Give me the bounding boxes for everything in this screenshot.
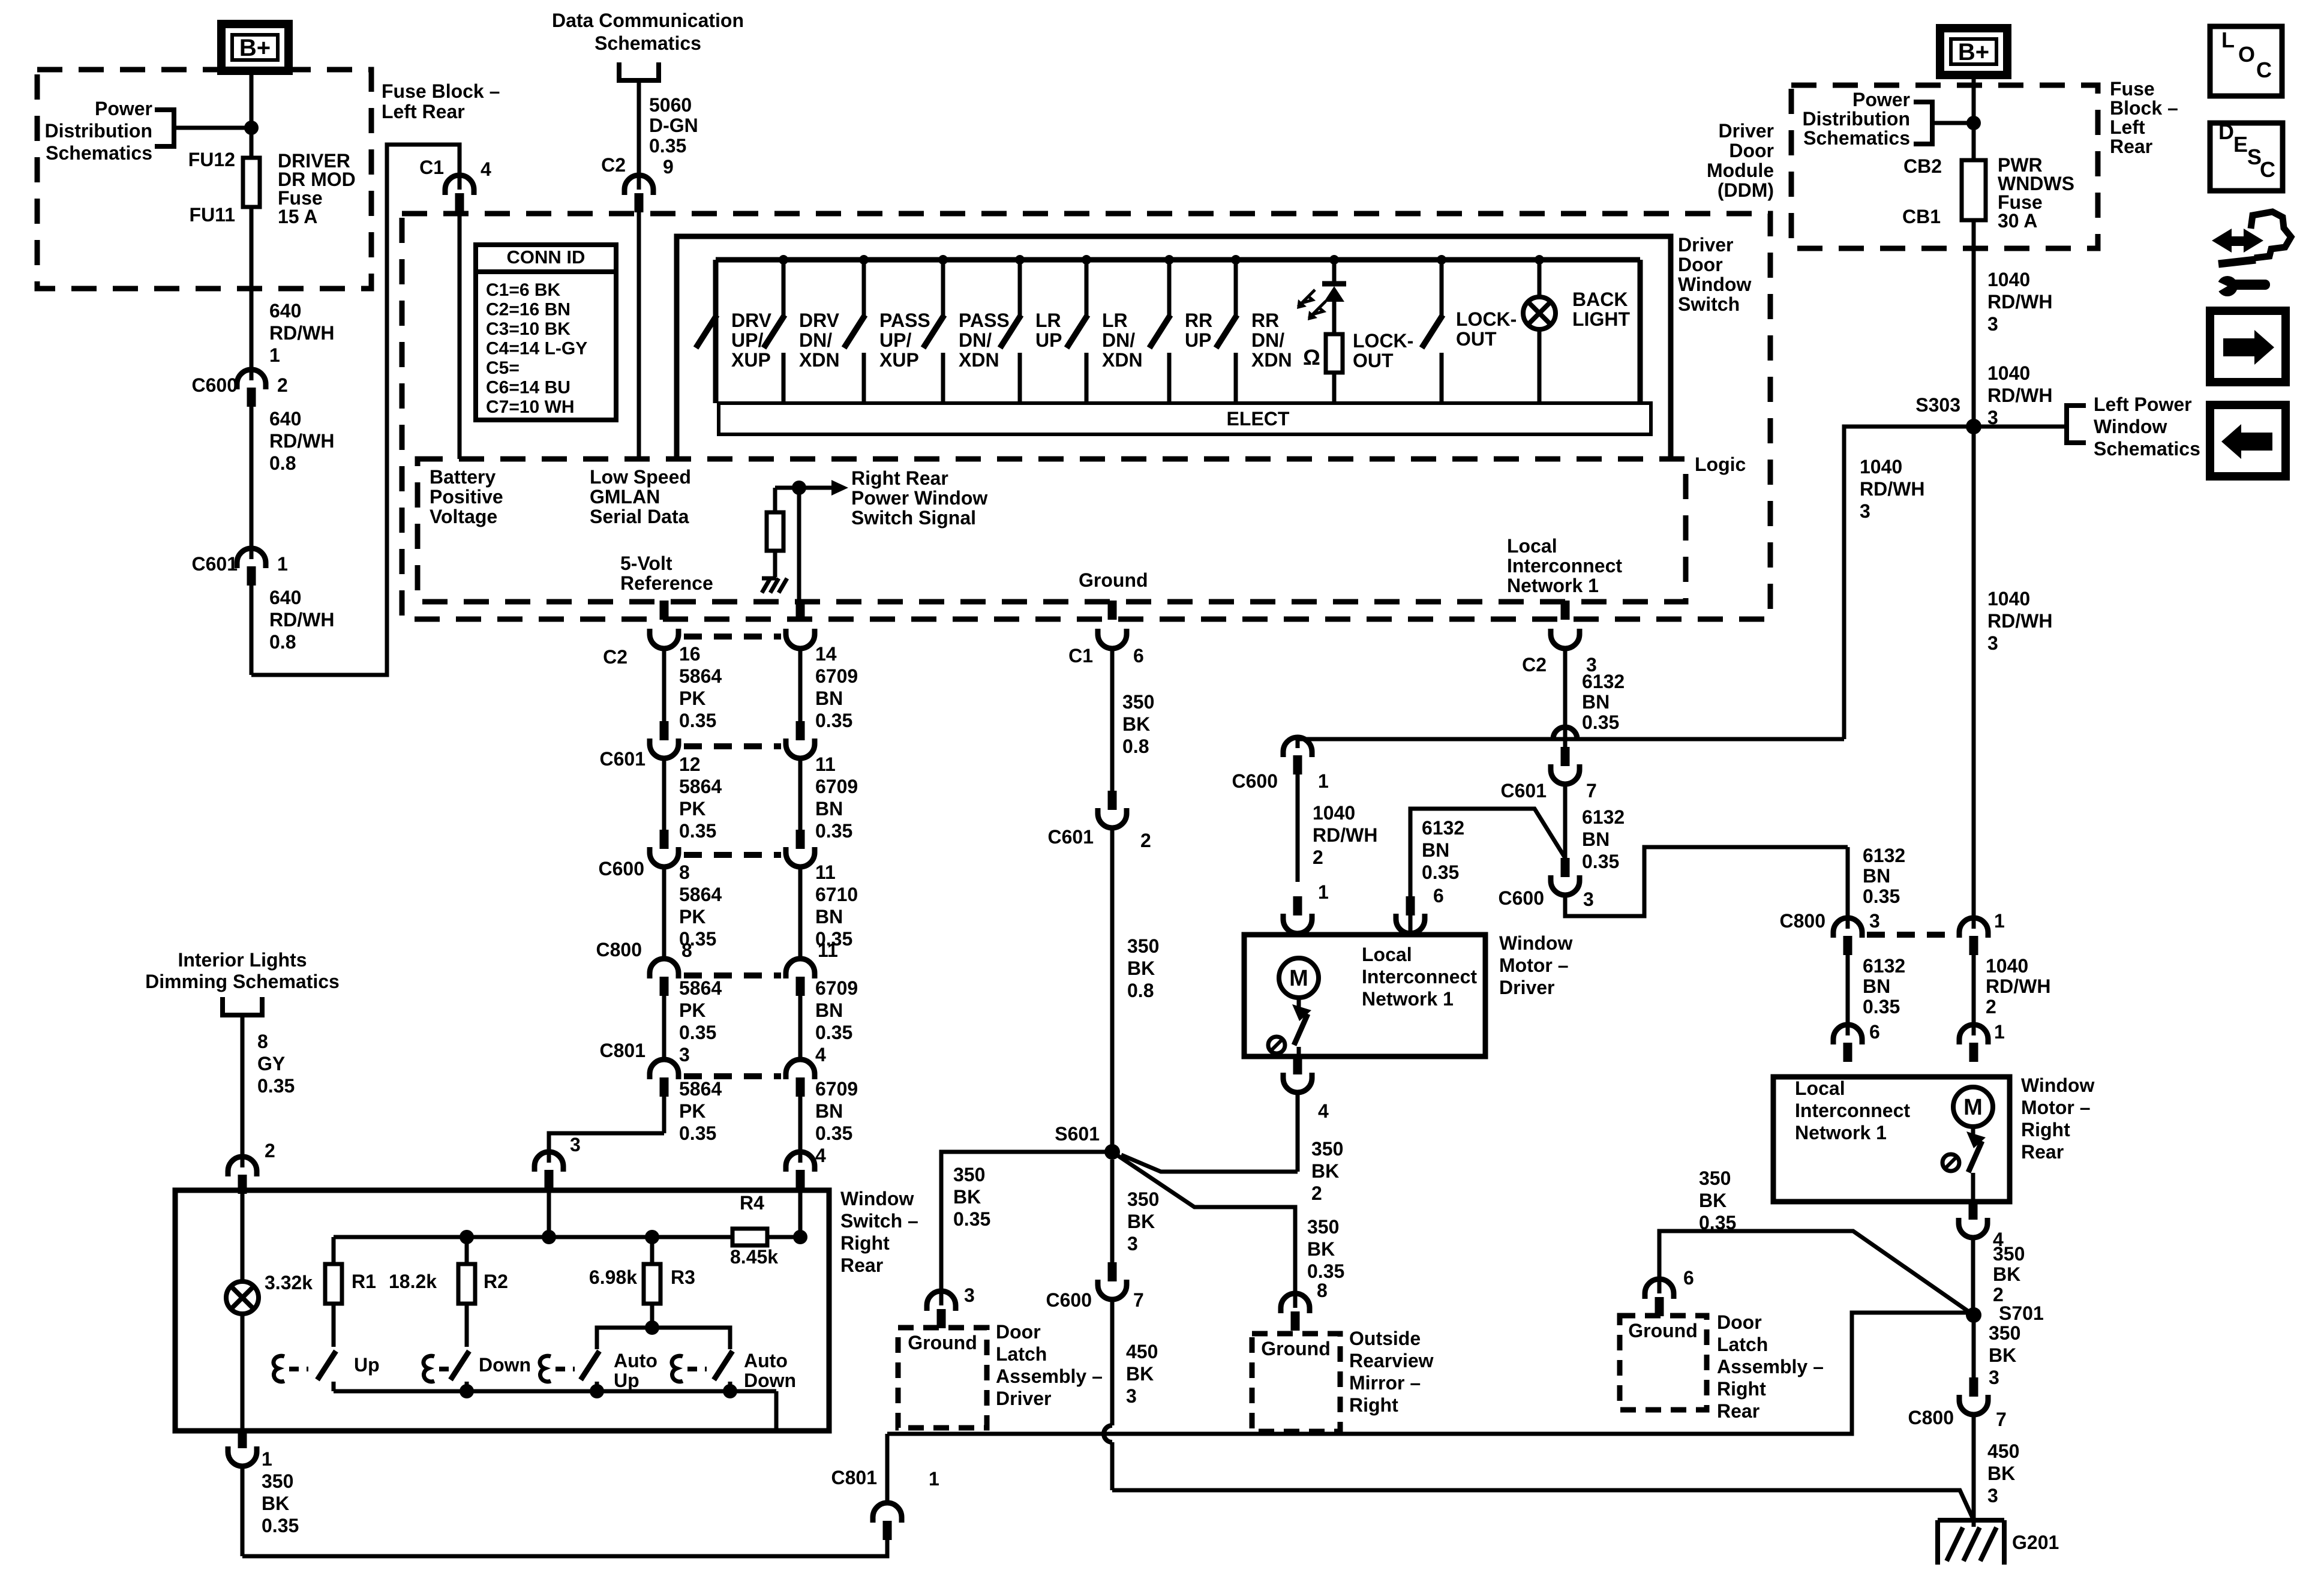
svg-text:Right: Right [840,1232,890,1254]
svg-text:Local: Local [1507,535,1557,557]
svg-text:DRV: DRV [731,310,772,331]
svg-text:C7=10 WH: C7=10 WH [486,397,575,417]
svg-text:6132: 6132 [1863,955,1905,977]
svg-text:0.35: 0.35 [1699,1212,1736,1233]
svg-text:C800: C800 [1780,910,1826,932]
svg-text:GMLAN: GMLAN [590,486,660,508]
svg-text:DN/: DN/ [1102,329,1135,351]
svg-text:3: 3 [1126,1385,1137,1407]
svg-text:Data Communication: Data Communication [552,10,744,31]
svg-text:Low Speed: Low Speed [590,466,691,488]
svg-text:Left Rear: Left Rear [382,101,465,122]
svg-text:FU12: FU12 [188,149,235,170]
svg-text:C2: C2 [603,646,627,668]
svg-text:BK: BK [1126,1363,1154,1385]
svg-text:Door: Door [1729,140,1774,161]
svg-text:Latch: Latch [996,1343,1047,1365]
svg-text:Door: Door [1717,1311,1762,1333]
svg-text:C600: C600 [1499,887,1545,909]
svg-text:350: 350 [262,1470,293,1492]
svg-text:6710: 6710 [815,884,858,905]
svg-text:Power: Power [95,98,152,119]
svg-text:5864: 5864 [679,776,722,797]
svg-text:LR: LR [1102,310,1128,331]
svg-text:C5=: C5= [486,358,520,378]
svg-text:Interior Lights: Interior Lights [178,949,307,971]
svg-text:4: 4 [815,1044,826,1065]
svg-text:350: 350 [1993,1243,2025,1265]
svg-text:C2=16 BN: C2=16 BN [486,300,571,320]
svg-text:3.32k: 3.32k [265,1272,313,1293]
svg-text:Auto: Auto [614,1350,657,1371]
svg-text:CB1: CB1 [1902,206,1941,227]
svg-text:Window: Window [1678,274,1751,295]
svg-text:Door: Door [1678,254,1723,275]
svg-text:D: D [2218,119,2234,144]
svg-text:BK: BK [953,1186,981,1208]
svg-text:Door: Door [996,1321,1041,1343]
svg-text:0.35: 0.35 [1582,851,1619,872]
svg-text:BK: BK [1989,1344,2016,1366]
svg-text:8: 8 [679,861,690,883]
svg-text:2: 2 [1311,1182,1322,1204]
svg-text:Ground: Ground [1261,1338,1331,1359]
svg-text:C: C [2260,157,2275,182]
svg-text:GY: GY [257,1053,285,1074]
svg-text:Assembly –: Assembly – [996,1365,1103,1387]
svg-text:1: 1 [1318,770,1329,792]
svg-text:Dimming Schematics: Dimming Schematics [145,971,340,992]
svg-text:Assembly –: Assembly – [1717,1356,1824,1377]
svg-text:1040: 1040 [1987,269,2030,290]
svg-text:Outside: Outside [1349,1328,1421,1349]
svg-text:Driver: Driver [996,1388,1052,1409]
svg-text:0.35: 0.35 [815,1122,852,1144]
svg-text:11: 11 [815,861,836,883]
svg-text:C601: C601 [1048,826,1094,848]
svg-text:3: 3 [1987,1485,1998,1506]
svg-text:0.35: 0.35 [815,820,852,842]
svg-text:BN: BN [815,798,843,819]
svg-text:350: 350 [1127,1188,1159,1210]
svg-text:0.35: 0.35 [815,710,852,731]
svg-text:3: 3 [1583,888,1594,910]
svg-text:0.35: 0.35 [679,1022,716,1043]
svg-text:B+: B+ [1958,39,1989,65]
svg-text:BN: BN [1863,865,1890,887]
svg-text:0.35: 0.35 [649,135,686,157]
svg-text:5864: 5864 [679,977,722,999]
svg-text:PK: PK [679,688,705,709]
svg-text:5-Volt: 5-Volt [620,553,672,574]
svg-text:BK: BK [1122,713,1150,735]
svg-text:C2: C2 [601,154,626,176]
svg-text:Motor –: Motor – [2021,1097,2091,1118]
svg-text:1040: 1040 [1987,362,2030,384]
svg-text:C2: C2 [1522,654,1547,676]
svg-text:5864: 5864 [679,884,722,905]
svg-text:Serial Data: Serial Data [590,506,689,527]
svg-text:XUP: XUP [731,349,771,371]
svg-text:C1: C1 [1068,645,1093,667]
svg-text:12: 12 [679,754,701,775]
svg-text:PASS: PASS [959,310,1010,331]
svg-text:LOCK-: LOCK- [1353,330,1413,352]
svg-text:Ground: Ground [1079,569,1148,591]
svg-text:Schematics: Schematics [594,32,701,54]
svg-text:7: 7 [1133,1289,1144,1311]
svg-text:Module: Module [1707,160,1774,181]
svg-text:C600: C600 [1046,1289,1092,1311]
svg-text:0.35: 0.35 [262,1515,299,1536]
svg-text:4: 4 [481,158,491,180]
svg-text:BN: BN [815,906,843,927]
svg-text:O: O [2238,42,2255,67]
svg-text:350: 350 [1699,1167,1731,1189]
svg-text:Driver: Driver [1499,977,1555,998]
svg-text:640: 640 [269,587,301,608]
svg-text:C1: C1 [419,157,444,178]
svg-text:G201: G201 [2012,1532,2059,1553]
svg-text:Ground: Ground [908,1332,977,1353]
svg-text:14: 14 [815,643,837,665]
svg-text:PASS: PASS [879,310,930,331]
svg-text:8: 8 [1317,1280,1328,1301]
svg-text:Down: Down [744,1370,796,1391]
svg-text:6: 6 [1869,1021,1880,1043]
svg-text:BN: BN [1863,975,1890,997]
svg-text:Block –: Block – [2110,97,2178,119]
svg-text:0.35: 0.35 [257,1075,295,1097]
svg-text:Interconnect: Interconnect [1362,966,1477,987]
svg-text:RR: RR [1251,310,1279,331]
svg-text:6132: 6132 [1422,817,1464,839]
svg-text:RD/WH: RD/WH [1987,610,2052,632]
svg-text:RD/WH: RD/WH [269,430,334,452]
svg-text:C801: C801 [831,1467,878,1488]
svg-text:1040: 1040 [1860,456,1902,478]
svg-text:Driver: Driver [1719,120,1774,142]
svg-text:C601: C601 [1501,780,1547,801]
svg-text:1: 1 [1994,1021,2005,1043]
svg-text:PK: PK [679,906,705,927]
svg-text:3: 3 [1127,1233,1138,1254]
svg-text:3: 3 [1860,500,1870,522]
svg-text:5864: 5864 [679,665,722,687]
svg-text:C4=14 L-GY: C4=14 L-GY [486,339,587,359]
svg-text:Switch –: Switch – [840,1210,918,1232]
svg-text:Rear: Rear [840,1254,883,1276]
svg-text:Switch Signal: Switch Signal [851,507,976,529]
svg-text:C600: C600 [599,858,645,879]
svg-text:1: 1 [929,1468,939,1490]
svg-text:DN/: DN/ [799,329,832,351]
svg-text:1: 1 [1994,910,2005,932]
svg-text:C800: C800 [1908,1407,1954,1428]
svg-text:Left: Left [2110,116,2145,138]
svg-text:Ground: Ground [1628,1320,1698,1341]
svg-text:Network 1: Network 1 [1362,988,1454,1010]
svg-text:7: 7 [1996,1409,2007,1430]
svg-text:Up: Up [614,1370,639,1391]
svg-text:350: 350 [953,1164,985,1185]
svg-text:6709: 6709 [815,1078,858,1100]
svg-text:Local: Local [1362,944,1412,965]
svg-text:0.8: 0.8 [269,631,296,653]
svg-text:Rear: Rear [2110,136,2152,157]
svg-text:6132: 6132 [1582,806,1625,828]
svg-text:DRV: DRV [799,310,840,331]
svg-text:B+: B+ [239,35,271,61]
svg-text:S601: S601 [1055,1123,1100,1145]
svg-text:9: 9 [663,156,674,178]
svg-text:C800: C800 [596,939,642,960]
svg-text:BN: BN [1582,691,1610,713]
svg-text:0.35: 0.35 [679,1122,716,1144]
svg-text:3: 3 [1989,1367,1999,1388]
svg-text:Window: Window [2094,416,2167,437]
svg-text:0.8: 0.8 [269,452,296,474]
svg-text:18.2k: 18.2k [389,1271,437,1292]
svg-text:0.8: 0.8 [1122,736,1149,757]
svg-text:6: 6 [1133,645,1144,667]
svg-text:BK: BK [1127,1211,1155,1232]
svg-text:C601: C601 [192,553,238,575]
svg-text:D-GN: D-GN [649,115,698,136]
svg-text:Battery: Battery [430,466,496,488]
svg-text:Distribution: Distribution [44,120,152,142]
svg-text:Ω: Ω [1303,345,1320,370]
svg-text:0.35: 0.35 [1863,885,1900,907]
svg-text:Window: Window [840,1188,914,1209]
svg-text:450: 450 [1987,1440,2019,1462]
svg-text:Right: Right [2021,1119,2070,1140]
svg-text:7: 7 [1586,780,1597,801]
svg-text:Motor –: Motor – [1499,954,1569,976]
svg-text:Interconnect: Interconnect [1507,555,1622,577]
svg-text:11: 11 [818,939,838,961]
svg-text:PK: PK [679,999,705,1021]
svg-text:Window: Window [2021,1074,2094,1096]
svg-text:OUT: OUT [1353,350,1394,371]
svg-text:Network 1: Network 1 [1507,575,1599,596]
svg-text:3: 3 [679,1044,690,1065]
svg-text:5864: 5864 [679,1078,722,1100]
svg-text:Network 1: Network 1 [1795,1122,1887,1143]
svg-text:30 A: 30 A [1998,210,2037,232]
svg-text:RD/WH: RD/WH [1313,824,1377,846]
svg-text:BACK: BACK [1572,289,1628,310]
svg-text:11: 11 [815,754,836,775]
svg-text:350: 350 [1989,1322,2020,1344]
svg-text:0.35: 0.35 [679,710,716,731]
svg-text:RR: RR [1185,310,1212,331]
svg-text:1040: 1040 [1313,802,1355,824]
svg-text:Latch: Latch [1717,1334,1768,1355]
svg-text:Fuse Block –: Fuse Block – [382,80,500,102]
svg-text:XDN: XDN [1102,349,1143,371]
svg-text:PK: PK [679,798,705,819]
svg-text:Power Window: Power Window [851,487,987,509]
svg-text:0.35: 0.35 [1422,861,1459,883]
svg-text:1040: 1040 [1986,955,2028,977]
svg-text:R4: R4 [740,1192,764,1214]
svg-text:Schematics: Schematics [46,142,152,164]
svg-text:8.45k: 8.45k [730,1246,778,1268]
svg-text:350: 350 [1307,1216,1339,1238]
svg-text:UP/: UP/ [731,329,763,351]
svg-text:Right: Right [1349,1394,1398,1416]
svg-text:Window: Window [1499,932,1572,954]
svg-text:Fuse: Fuse [2110,78,2155,100]
svg-text:1: 1 [262,1448,272,1470]
svg-text:RD/WH: RD/WH [1986,975,2050,997]
svg-text:M: M [1963,1095,1983,1120]
svg-text:6709: 6709 [815,776,858,797]
svg-text:R2: R2 [484,1271,508,1292]
svg-text:2: 2 [265,1140,275,1161]
svg-text:Schematics: Schematics [1803,127,1910,149]
svg-text:RD/WH: RD/WH [1987,385,2052,406]
svg-text:C6=14 BU: C6=14 BU [486,378,571,398]
svg-text:FU11: FU11 [190,204,235,226]
svg-text:BK: BK [1699,1190,1727,1211]
svg-text:RD/WH: RD/WH [1987,291,2052,313]
svg-text:Left Power: Left Power [2094,394,2192,415]
svg-text:640: 640 [269,408,301,430]
svg-text:C: C [2256,58,2272,82]
svg-text:UP: UP [1035,329,1062,351]
svg-text:Down: Down [479,1354,531,1376]
svg-text:6.98k: 6.98k [589,1266,637,1288]
svg-text:BK: BK [1307,1238,1335,1260]
svg-text:E: E [2233,132,2248,157]
svg-text:2: 2 [1313,846,1323,868]
svg-text:Logic: Logic [1695,454,1746,475]
svg-text:Local: Local [1795,1077,1845,1099]
svg-text:RD/WH: RD/WH [269,322,334,344]
svg-text:3: 3 [1987,313,1998,335]
svg-text:6132: 6132 [1863,845,1905,866]
svg-text:BN: BN [815,1100,843,1122]
svg-text:S303: S303 [1915,394,1960,416]
svg-text:(DDM): (DDM) [1718,179,1774,201]
svg-text:350: 350 [1127,935,1159,957]
svg-text:350: 350 [1122,691,1154,713]
svg-text:ELECT: ELECT [1227,408,1290,430]
svg-text:3: 3 [1987,632,1998,654]
svg-text:Up: Up [354,1354,380,1376]
svg-text:Positive: Positive [430,486,503,508]
svg-text:Right Rear: Right Rear [851,467,948,489]
svg-text:OUT: OUT [1456,328,1497,350]
svg-text:3: 3 [570,1134,581,1155]
svg-text:450: 450 [1126,1341,1158,1362]
svg-text:0.35: 0.35 [679,820,716,842]
svg-text:BN: BN [815,999,843,1021]
svg-text:PK: PK [679,1100,705,1122]
svg-text:Schematics: Schematics [2094,438,2200,460]
svg-text:640: 640 [269,300,301,322]
svg-text:LOCK-: LOCK- [1456,308,1517,330]
svg-text:BK: BK [1127,957,1155,979]
svg-text:BK: BK [1311,1160,1339,1182]
svg-text:XDN: XDN [959,349,999,371]
svg-text:C801: C801 [600,1040,646,1061]
svg-text:0.35: 0.35 [815,1022,852,1043]
svg-text:Rear: Rear [2021,1141,2064,1163]
svg-text:BN: BN [815,688,843,709]
svg-text:BK: BK [1987,1463,2015,1484]
svg-text:C1=6 BK: C1=6 BK [486,280,561,300]
svg-text:XUP: XUP [879,349,919,371]
svg-text:2: 2 [277,374,288,396]
svg-text:RD/WH: RD/WH [269,609,334,631]
svg-text:Reference: Reference [620,572,713,594]
svg-text:CONN ID: CONN ID [507,247,585,268]
svg-text:2: 2 [1140,830,1151,851]
svg-text:C3=10 BK: C3=10 BK [486,319,571,339]
svg-text:BK: BK [1993,1263,2020,1285]
svg-text:DN/: DN/ [959,329,992,351]
svg-text:RD/WH: RD/WH [1860,478,1924,500]
svg-text:M: M [1289,966,1308,991]
svg-text:1040: 1040 [1987,588,2030,610]
svg-text:6709: 6709 [815,665,858,687]
svg-text:UP/: UP/ [879,329,911,351]
svg-text:6132: 6132 [1582,671,1625,692]
svg-text:1: 1 [269,344,280,366]
svg-text:CB2: CB2 [1903,155,1942,177]
svg-text:0.35: 0.35 [1307,1260,1344,1282]
svg-text:2: 2 [1986,996,1996,1017]
svg-text:1: 1 [277,553,288,575]
svg-text:C601: C601 [600,748,646,770]
svg-text:LR: LR [1035,310,1061,331]
svg-text:BK: BK [262,1493,289,1514]
svg-text:Power: Power [1852,89,1910,110]
svg-text:0.35: 0.35 [1863,996,1900,1017]
svg-text:Driver: Driver [1678,234,1734,256]
svg-text:LIGHT: LIGHT [1572,308,1630,330]
svg-text:5060: 5060 [649,94,692,116]
svg-text:6709: 6709 [815,977,858,999]
svg-text:Interconnect: Interconnect [1795,1100,1910,1121]
svg-text:16: 16 [679,643,701,665]
svg-text:R3: R3 [671,1266,695,1288]
svg-text:3: 3 [964,1284,975,1306]
svg-text:Mirror –: Mirror – [1349,1372,1421,1394]
svg-text:15 A: 15 A [278,206,317,227]
svg-text:Switch: Switch [1678,293,1740,315]
svg-text:6: 6 [1433,885,1444,906]
svg-text:BN: BN [1582,828,1610,850]
svg-text:DN/: DN/ [1251,329,1284,351]
svg-text:8: 8 [257,1031,268,1052]
svg-text:Voltage: Voltage [430,506,497,527]
svg-text:0.35: 0.35 [1582,712,1619,733]
svg-text:350: 350 [1311,1138,1343,1160]
svg-text:0.35: 0.35 [953,1208,990,1230]
svg-text:XDN: XDN [1251,349,1292,371]
svg-text:6: 6 [1683,1267,1694,1289]
svg-text:C600: C600 [1232,770,1278,792]
svg-text:Rearview: Rearview [1349,1350,1434,1371]
svg-text:Rear: Rear [1717,1400,1759,1422]
svg-text:3: 3 [1869,910,1880,932]
svg-text:1: 1 [1318,881,1329,903]
svg-text:C600: C600 [192,374,238,396]
